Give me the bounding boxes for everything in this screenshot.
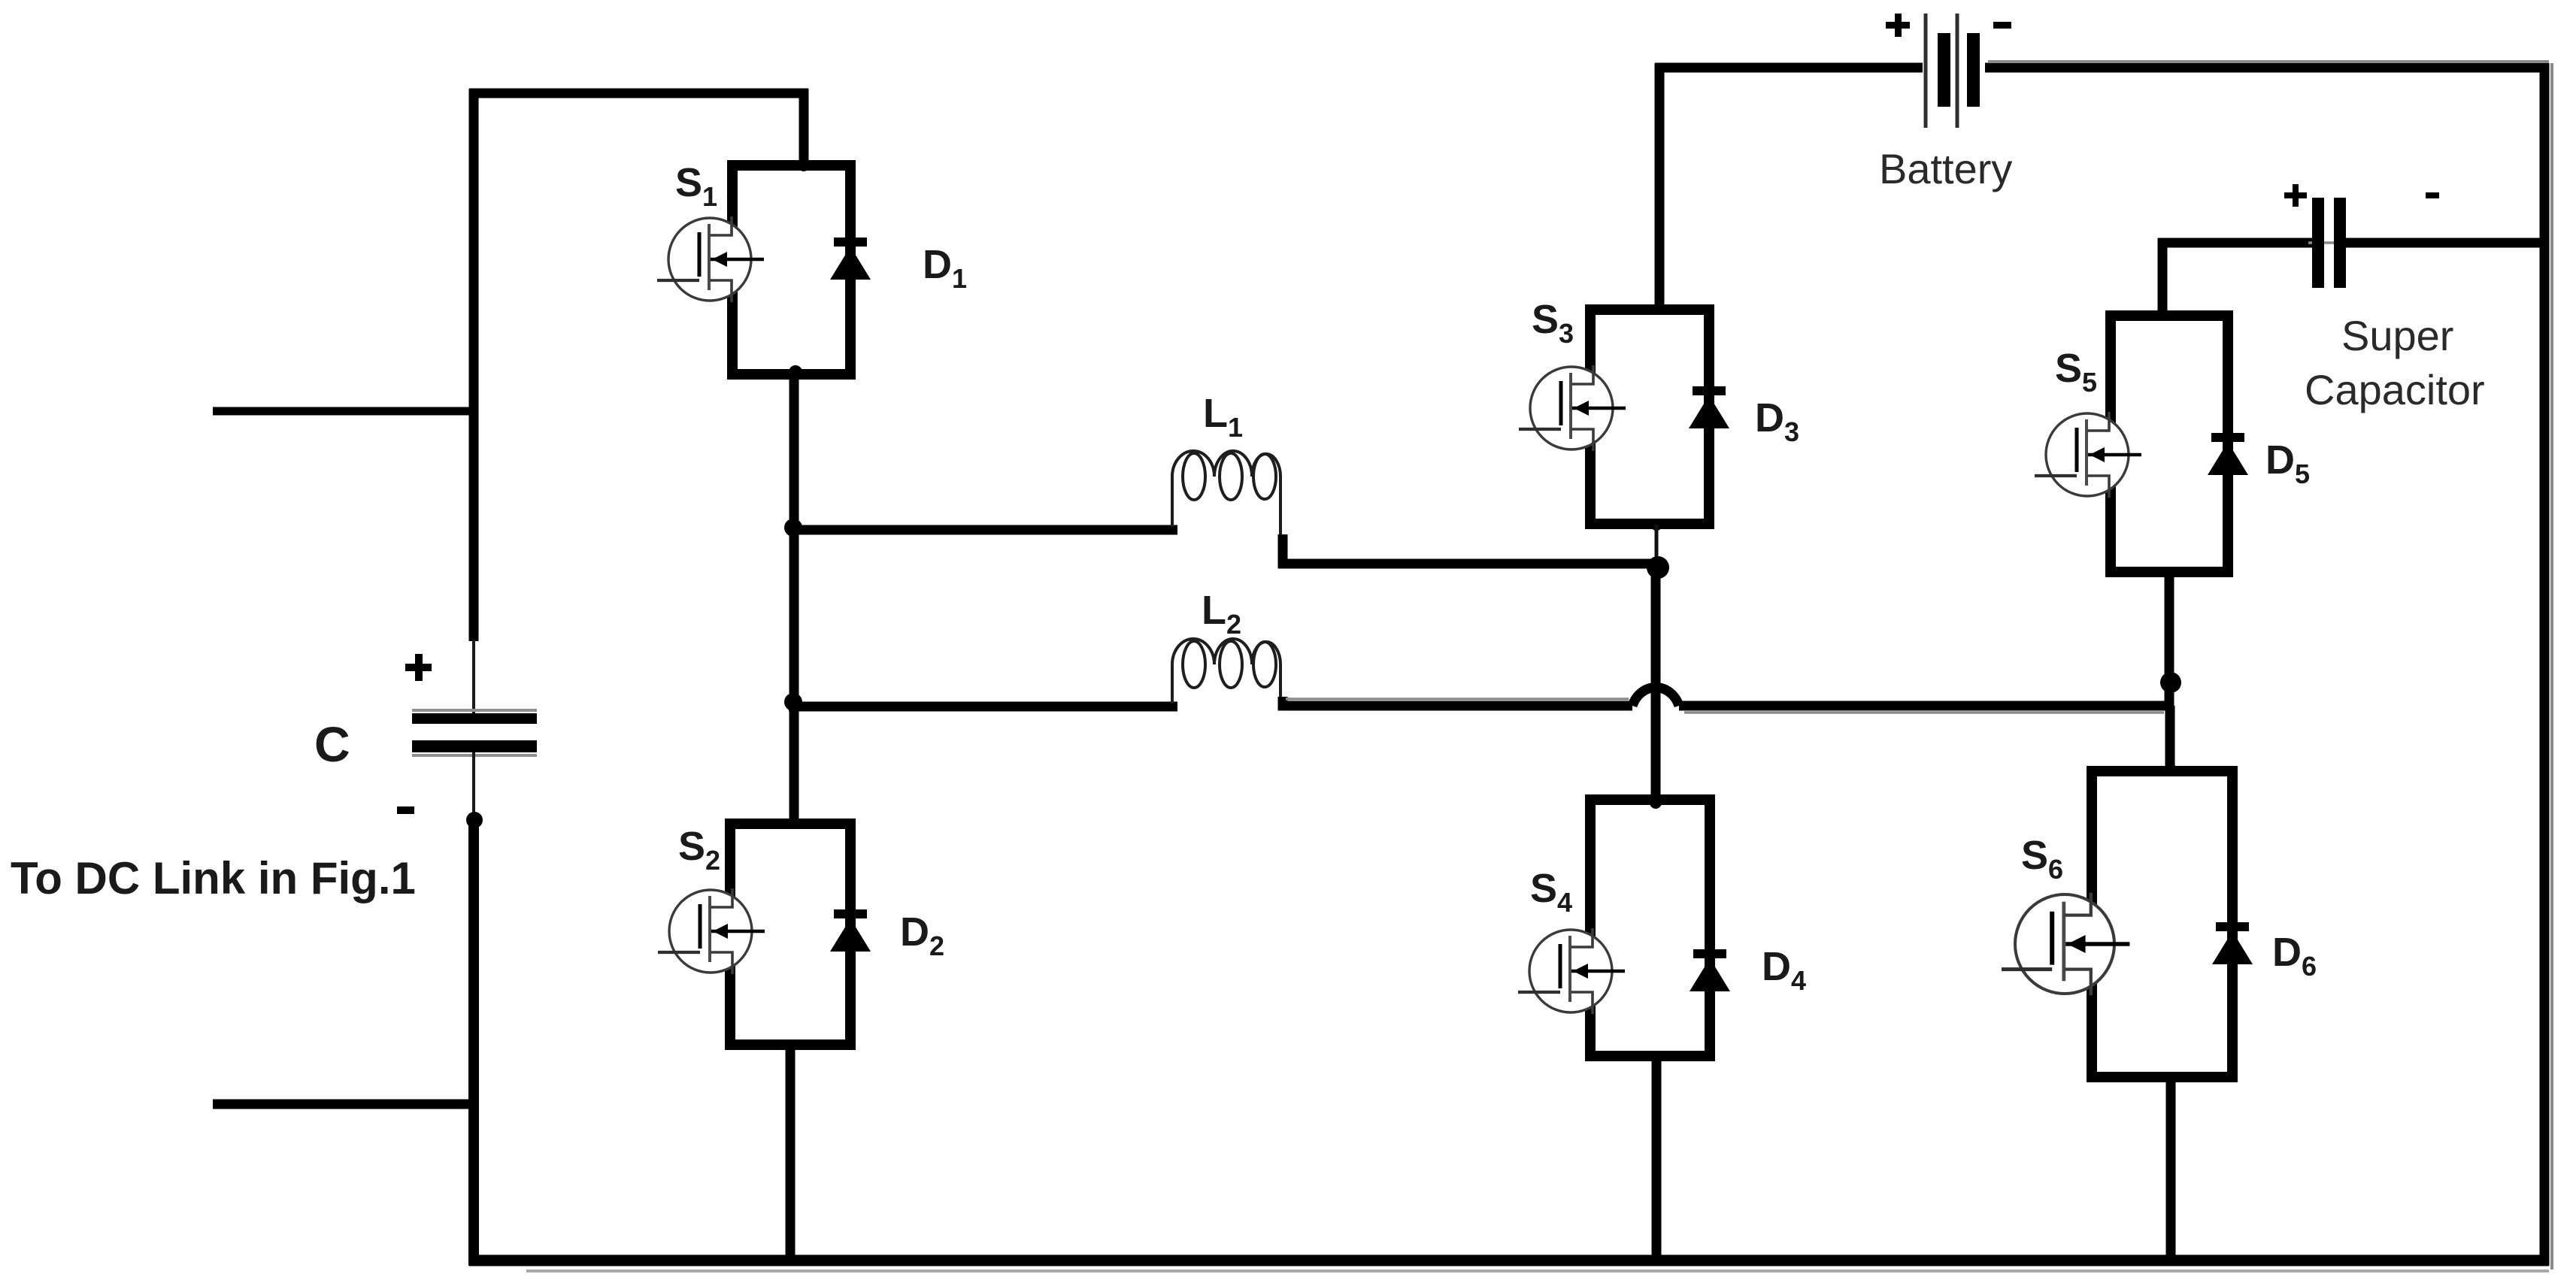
- wire: node A to L1 left terminal: [789, 525, 1177, 535]
- inductor L1 coil: [1172, 451, 1280, 537]
- svg-text:Battery: Battery: [1879, 145, 2012, 192]
- transistor S5 (MOSFET symbol): [2035, 412, 2141, 498]
- wire: drop from top bus into S1: [799, 89, 809, 170]
- wire: thin lead into capacitor C top plate: [472, 640, 475, 715]
- switch cell outline S4: [1590, 800, 1710, 1056]
- switch cell outline S2: [730, 824, 850, 1045]
- wire: top horizontal bus from DC-link column to S1 column: [469, 89, 808, 98]
- gray ghost line right of rail: [2550, 63, 2553, 1269]
- wire: left vertical rail upper section: [469, 89, 479, 641]
- gray ghost line above L2 right run: [1286, 697, 1629, 701]
- gray ghost line below ground bus: [526, 1269, 2549, 1272]
- gray ghost line below L2 right of hop: [1684, 711, 2164, 714]
- wire: right vertical rail: [2540, 63, 2550, 1266]
- node A junction to L1: [784, 519, 802, 537]
- inductor L2 coil: [1172, 639, 1280, 704]
- wire: from S6 bottom to ground bus: [2166, 1073, 2176, 1266]
- node at S1 box bottom: [789, 365, 802, 379]
- wire: L2 right terminal to hop: [1283, 697, 1632, 706]
- wire: supercap left horizontal: [2158, 238, 2314, 248]
- switch cell outline S1: [732, 165, 850, 374]
- node at S1 box top: [799, 161, 809, 171]
- node at S3 box bottom: [1650, 519, 1662, 531]
- switch cell outline S3: [1590, 310, 1709, 524]
- wire: left vertical rail lower section: [468, 817, 479, 1266]
- node B junction to L2: [784, 693, 802, 711]
- svg-text:Super: Super: [2341, 312, 2453, 359]
- wire: vertical from S1 bottom to S2 top: [789, 370, 799, 828]
- diode D4: [1690, 949, 1730, 991]
- wire: from S5 bottom to S5/S6 junction: [2165, 567, 2174, 710]
- wire: from S2 bottom to ground bus: [786, 1040, 796, 1266]
- wire: S3 top vertical to battery corner: [1655, 63, 1665, 314]
- wire: node B to L2 left terminal: [789, 702, 1177, 712]
- junction node below capacitor C: [466, 812, 483, 828]
- gray ghost line above battery right wire: [1988, 60, 2549, 63]
- minus sign at capacitor C: [397, 806, 414, 814]
- junction L2 / S5 / S6: [2160, 672, 2181, 693]
- wire: thin link S3 bottom to junction: [1655, 525, 1659, 562]
- node at S4 box top: [1650, 797, 1662, 809]
- transistor S4 (MOSFET symbol): [1518, 928, 1625, 1014]
- wire: L2 from hop to S5/S6 junction: [1679, 701, 2169, 711]
- capacitor C bottom plate: [412, 740, 537, 752]
- wire: bottom ground bus: [469, 1255, 2549, 1266]
- capacitor C gray edge bottom plate: [412, 754, 537, 757]
- diode D1: [830, 238, 871, 280]
- wire: supercap right horizontal to right rail: [2345, 238, 2549, 248]
- minus sign at super capacitor: [2426, 192, 2439, 198]
- svg-text:To DC Link in Fig.1: To DC Link in Fig.1: [11, 853, 416, 903]
- wire: thin lead from capacitor C bottom plate: [472, 752, 475, 817]
- wire: S5 top vertical to supercap corner: [2158, 238, 2168, 320]
- capacitor C top plate: [412, 713, 537, 724]
- wire: from S4 bottom to ground bus: [1652, 1052, 1662, 1266]
- diode D3: [1689, 386, 1729, 428]
- switch cell outline S6: [2092, 771, 2232, 1077]
- minus sign at battery: [1993, 22, 2011, 29]
- plus sign at capacitor C: [405, 664, 432, 671]
- super capacitor symbol: [2308, 198, 2350, 288]
- transistor S6 (MOSFET symbol): [2002, 893, 2129, 996]
- diode D6: [2212, 922, 2253, 964]
- svg-text:Capacitor: Capacitor: [2305, 366, 2485, 413]
- plus sign at super capacitor: [2284, 192, 2307, 198]
- wire: from junction down to S6 top: [2165, 706, 2175, 776]
- transistor S2 (MOSFET symbol): [658, 888, 765, 974]
- wire: DC link positive stub: [213, 407, 478, 416]
- transistor S1 (MOSFET symbol): [657, 216, 764, 302]
- junction L1 / S3 / S4: [1647, 556, 1669, 579]
- switch cell outline S5: [2111, 316, 2228, 572]
- wire: DC link negative stub: [213, 1100, 478, 1109]
- battery symbol: [1926, 14, 1980, 128]
- diode D2: [830, 909, 871, 952]
- wire: battery left horizontal: [1655, 63, 1923, 73]
- diode D5: [2208, 433, 2248, 475]
- wire: vertical from junction down to S4 (through hop): [1651, 567, 1661, 804]
- svg-text:C: C: [314, 716, 350, 772]
- plus sign at battery: [1886, 22, 1910, 29]
- transistor S3 (MOSFET symbol): [1519, 365, 1626, 451]
- wire hop: L2 crosses over S3/S4 branch: [1632, 688, 1679, 706]
- wire: L1 right terminal to S3/S4 junction: [1283, 534, 1658, 564]
- wire: battery right horizontal to right rail: [1985, 63, 2549, 73]
- capacitor C gray edge top plate: [412, 709, 537, 712]
- node at S6 box top: [2165, 763, 2176, 773]
